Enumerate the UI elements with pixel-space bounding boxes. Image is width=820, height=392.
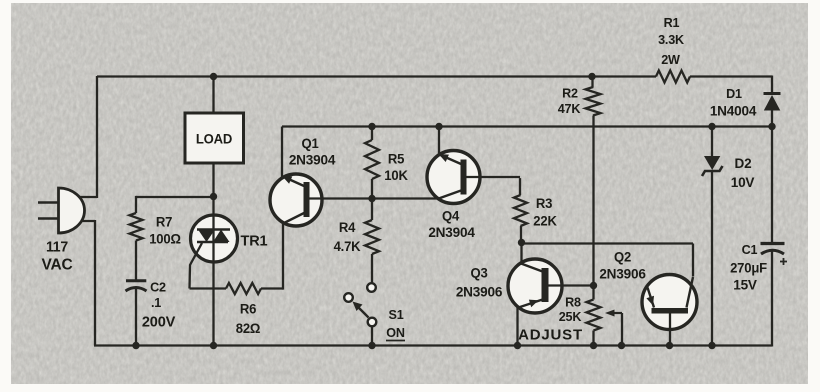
- node Q3 base / R8 junction: [590, 282, 597, 289]
- label R2 value: [558, 101, 581, 116]
- wire D2 branch upper: [711, 127, 713, 157]
- label D2: [735, 156, 752, 171]
- resistor R6: [226, 283, 261, 294]
- svg-text:2N3906: 2N3906: [456, 284, 503, 299]
- svg-text:ADJUST: ADJUST: [518, 327, 583, 344]
- label Q1: [301, 136, 319, 151]
- svg-text:2N3904: 2N3904: [289, 152, 336, 167]
- wire R5 to node: [371, 179, 373, 220]
- svg-text:R7: R7: [156, 214, 172, 229]
- transistor Q2 body: [642, 275, 697, 330]
- svg-text:10V: 10V: [731, 175, 756, 190]
- label R3: [536, 196, 552, 211]
- label C2 value .1: [151, 295, 161, 310]
- label 117 VAC: [41, 239, 72, 273]
- potentiometer R8: [587, 300, 601, 331]
- label R5 value: [384, 168, 408, 183]
- label R4 value: [334, 239, 361, 254]
- svg-text:117: 117: [46, 239, 68, 255]
- label Q4 type: [428, 225, 475, 240]
- node R8 wiper rail junction: [618, 342, 625, 349]
- svg-text:VAC: VAC: [41, 256, 72, 273]
- capacitor C1: [761, 244, 785, 255]
- switch S1 top terminal: [367, 283, 376, 292]
- wire R6 to Q1 collector: [261, 223, 283, 290]
- wire R2 to Q3 base node: [592, 116, 594, 286]
- svg-text:10K: 10K: [384, 168, 408, 183]
- node Q4 collector junction: [435, 123, 442, 130]
- transistor Q2 emitter lead: [646, 288, 654, 308]
- transistor Q3 base bar: [542, 268, 549, 302]
- wire Q3 collector: [520, 244, 522, 264]
- label S1 ON: [386, 325, 405, 341]
- svg-text:R1: R1: [664, 15, 680, 30]
- svg-text:47K: 47K: [558, 101, 581, 116]
- svg-text:Q1: Q1: [301, 136, 319, 151]
- wire S1 to bottom rail: [371, 326, 373, 345]
- wire R8 to bottom rail: [592, 331, 594, 346]
- wire left rail lower (plug neutral to bottom rail): [78, 220, 95, 346]
- svg-text:.1: .1: [151, 295, 161, 310]
- transistor Q3 body: [508, 259, 562, 313]
- transistor Q3 collector lead: [521, 264, 543, 272]
- wire Q4 base to R3: [467, 177, 521, 195]
- svg-text:2N3906: 2N3906: [599, 266, 646, 281]
- label TR1: [241, 233, 268, 249]
- wire R8 top lead: [592, 286, 594, 300]
- svg-text:15V: 15V: [733, 277, 758, 292]
- potentiometer R8 wiper: [605, 310, 622, 346]
- transistor Q1 body: [270, 174, 322, 226]
- svg-text:ON: ON: [386, 325, 405, 340]
- node TR1 bottom rail junction: [210, 342, 217, 349]
- svg-text:C1: C1: [742, 242, 758, 257]
- svg-text:R8: R8: [565, 294, 581, 309]
- plug prong upper: [38, 201, 59, 204]
- label D2 value: [731, 175, 756, 190]
- label R8 ADJUST: [518, 327, 583, 344]
- wire R7 to C2: [135, 241, 137, 281]
- transistor Q1 base bar: [304, 182, 310, 217]
- label Q3: [470, 265, 487, 280]
- label Q4: [442, 208, 460, 223]
- svg-text:R6: R6: [240, 301, 256, 316]
- transistor Q1 emitter arrow: [282, 176, 304, 186]
- wire bottom rail: [94, 344, 772, 346]
- node R8 bottom rail junction: [590, 342, 597, 349]
- svg-text:R4: R4: [339, 220, 356, 235]
- label R8: [565, 294, 581, 309]
- label D1: [726, 86, 742, 101]
- wire second rail (DC bus): [282, 125, 772, 127]
- label R2: [562, 85, 578, 100]
- resistor R3: [514, 195, 527, 226]
- wire R4 to S1: [371, 254, 373, 283]
- node R3/Q3 collector junction: [518, 239, 525, 246]
- label R8 value: [559, 309, 582, 324]
- transistor Q1 collector lead: [283, 213, 304, 224]
- node D2 top junction: [708, 123, 715, 130]
- label R3 value: [533, 213, 557, 228]
- svg-text:S1: S1: [388, 307, 403, 322]
- label D1 type: [710, 103, 757, 118]
- label Q2 type: [599, 266, 646, 281]
- label Q1 type: [289, 152, 336, 167]
- wire R2 top lead: [593, 77, 594, 88]
- svg-text:Q3: Q3: [470, 265, 487, 280]
- load box: [185, 113, 244, 163]
- label R7 value: [149, 231, 181, 246]
- label R1: [664, 15, 680, 30]
- resistor R1: [656, 71, 690, 83]
- node Q3 emitter rail junction: [514, 342, 521, 349]
- label R4: [339, 220, 356, 235]
- wire junction to R7 top: [136, 196, 214, 198]
- node DC bus right end junction: [768, 123, 775, 130]
- svg-text:C2: C2: [150, 279, 166, 294]
- label C1 value: [730, 260, 767, 275]
- node Q2 rail junction: [666, 342, 673, 349]
- svg-text:3.3K: 3.3K: [658, 32, 685, 47]
- svg-text:R2: R2: [562, 85, 578, 100]
- wire Q1 emitter to DC bus: [281, 127, 283, 179]
- svg-text:1N4004: 1N4004: [710, 103, 757, 118]
- switch S1 bottom terminal: [368, 318, 377, 327]
- plug prong lower: [38, 217, 59, 220]
- wire R7 top lead: [135, 196, 137, 213]
- svg-text:82Ω: 82Ω: [236, 321, 261, 336]
- capacitor C2: [126, 281, 147, 291]
- diode D1: [764, 94, 781, 111]
- svg-text:LOAD: LOAD: [196, 131, 233, 146]
- transistor Q4 base bar: [461, 160, 467, 195]
- wire right rail upper: [771, 76, 773, 94]
- wire Q4 collector: [438, 127, 440, 156]
- label R6 value: [236, 321, 261, 336]
- svg-text:2N3904: 2N3904: [428, 225, 475, 240]
- label S1: [388, 307, 403, 322]
- svg-text:100Ω: 100Ω: [149, 231, 181, 246]
- resistor R4: [365, 220, 379, 254]
- svg-text:25K: 25K: [559, 309, 582, 324]
- transistor Q2 collector lead: [687, 277, 694, 308]
- wire TR1 MT2 vertical through body: [212, 215, 214, 262]
- transistor Q2 base bar: [652, 308, 689, 314]
- svg-text:Q2: Q2: [614, 249, 631, 264]
- label C1: [742, 242, 758, 257]
- svg-text:270μF: 270μF: [730, 260, 767, 275]
- label Q2: [614, 249, 631, 264]
- wire top rail to LOAD: [212, 77, 214, 114]
- wire D2 to bottom rail: [711, 171, 713, 346]
- svg-text:4.7K: 4.7K: [334, 239, 361, 254]
- svg-text:Q4: Q4: [442, 208, 460, 223]
- triac TR1 symbol: [197, 230, 230, 243]
- wire right rail mid: [771, 110, 773, 243]
- label C2 voltage: [142, 314, 176, 330]
- transistor Q4 body: [427, 151, 480, 204]
- node R5 top junction: [368, 123, 375, 130]
- svg-text:TR1: TR1: [241, 233, 268, 249]
- wire Q2 base to bottom rail: [669, 314, 671, 346]
- wire right rail lower: [771, 251, 773, 347]
- svg-text:R3: R3: [536, 196, 552, 211]
- label LOAD: [196, 131, 233, 146]
- switch S1 throw terminal: [344, 293, 353, 302]
- svg-text:2W: 2W: [661, 52, 681, 67]
- wire gate to R6: [190, 287, 227, 289]
- svg-text:D2: D2: [735, 156, 752, 171]
- transistor Q4 emitter arrow: [439, 154, 462, 164]
- switch S1 lever: [353, 302, 369, 318]
- svg-text:R5: R5: [388, 151, 405, 166]
- label C1 voltage: [733, 277, 758, 292]
- wire Q3 base: [549, 284, 594, 286]
- wire C2 to bottom rail: [135, 289, 137, 346]
- label R5: [388, 151, 405, 166]
- zener diode D2: [702, 156, 723, 176]
- label R1 value: [658, 32, 685, 47]
- wire left rail upper (plug hot to top rail): [77, 76, 98, 198]
- resistor R2: [586, 87, 601, 116]
- resistor R7: [130, 213, 143, 241]
- wire Q1 base to R4/R5 node: [309, 197, 438, 199]
- label R1 wattage: [661, 52, 681, 67]
- svg-text:200V: 200V: [142, 314, 176, 330]
- capacitor C1 plus: [780, 258, 787, 265]
- label R6: [240, 301, 256, 316]
- node Q1 base junction: [368, 195, 375, 202]
- node D2 bottom rail junction: [708, 342, 715, 349]
- wire R3 node to Q2 collector: [522, 244, 694, 277]
- transistor Q4 lower lead: [438, 191, 461, 199]
- node LOAD/TR1/R7 junction: [210, 193, 217, 200]
- node C2 bottom rail junction: [132, 342, 139, 349]
- wire top rail: [97, 75, 772, 77]
- node S1 bottom rail junction: [368, 342, 375, 349]
- wire Q3 emitter to bottom rail: [516, 307, 518, 346]
- ac plug body: [59, 188, 85, 233]
- node top rail LOAD junction: [210, 73, 217, 80]
- wire LOAD to TR1 and bottom rail: [212, 163, 214, 346]
- triac TR1 body: [191, 215, 238, 262]
- label R7: [156, 214, 172, 229]
- transistor Q3 emitter lead: [519, 300, 543, 308]
- wire R5 top lead: [371, 127, 373, 141]
- wire R3 to node: [520, 226, 522, 244]
- node R2 top rail junction: [588, 73, 595, 80]
- label Q3 type: [456, 284, 503, 299]
- svg-text:D1: D1: [726, 86, 742, 101]
- resistor R5: [365, 140, 379, 179]
- label C2: [150, 279, 166, 294]
- wire TR1 gate: [190, 243, 203, 289]
- svg-text:22K: 22K: [533, 213, 557, 228]
